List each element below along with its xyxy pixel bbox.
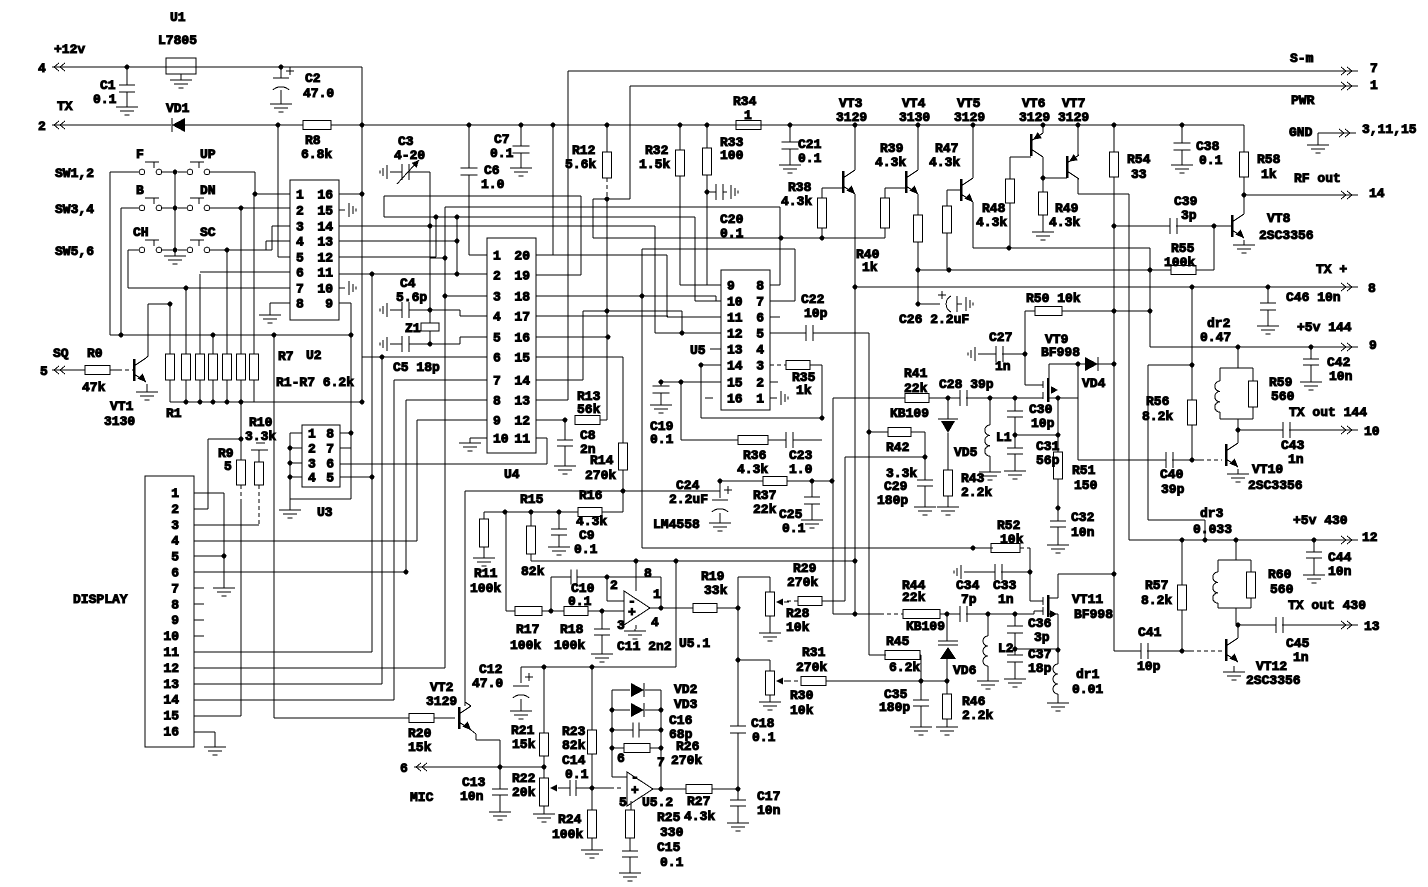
stub U5 pin2 bbox=[770, 381, 778, 383]
wire +5v 144 rail bbox=[1150, 346, 1338, 348]
svg-text:R42: R42 bbox=[886, 440, 910, 455]
resistor R6 6.2k bbox=[237, 354, 246, 380]
svg-text:R30: R30 bbox=[790, 688, 814, 703]
wire gate2 bus bbox=[1113, 177, 1115, 574]
ground U4 pin10 bbox=[470, 437, 487, 439]
svg-text:C6: C6 bbox=[484, 163, 500, 178]
resistor R56 8.2k bbox=[1191, 287, 1193, 365]
wire VT5 base R47 bbox=[947, 189, 961, 191]
wire R14 supply line bbox=[465, 490, 720, 492]
svg-text:C3: C3 bbox=[398, 134, 414, 149]
ground C17 bbox=[737, 820, 739, 823]
svg-text:R28: R28 bbox=[786, 606, 810, 621]
svg-text:4.3k: 4.3k bbox=[684, 809, 715, 824]
wire U5 pin8 riser bbox=[770, 284, 780, 286]
svg-text:4: 4 bbox=[756, 343, 764, 358]
svg-text:15k: 15k bbox=[512, 737, 536, 752]
svg-text:U5.2: U5.2 bbox=[642, 795, 673, 810]
wire main V line bbox=[331, 124, 1244, 126]
svg-text:0.1: 0.1 bbox=[798, 151, 822, 166]
svg-text:1: 1 bbox=[308, 427, 316, 442]
ground C7 bbox=[520, 164, 522, 168]
resistor R21 15k bbox=[540, 733, 549, 756]
svg-text:4-20: 4-20 bbox=[394, 148, 425, 163]
ground L2 bbox=[987, 666, 989, 678]
svg-text:14: 14 bbox=[514, 374, 530, 389]
ground C44 bbox=[1313, 572, 1315, 575]
wire U4 pin20 to U5 pin11 bus bbox=[553, 254, 667, 256]
transistor VT12 2SC3356 bbox=[1225, 639, 1228, 661]
svg-text:5: 5 bbox=[619, 795, 627, 810]
svg-text:9: 9 bbox=[171, 613, 179, 628]
ground R28 bbox=[769, 616, 771, 631]
svg-text:C32: C32 bbox=[1071, 510, 1095, 525]
wire VT12 collector bbox=[1237, 625, 1239, 638]
svg-text:100k: 100k bbox=[552, 827, 583, 842]
capacitor C31 56p bbox=[1007, 447, 1023, 449]
svg-text:SQ: SQ bbox=[53, 346, 69, 361]
svg-text:VT6: VT6 bbox=[1022, 96, 1046, 111]
wire R35 loop bbox=[810, 364, 822, 366]
wire R52 line bbox=[971, 546, 976, 551]
svg-text:C26 2.2uF: C26 2.2uF bbox=[899, 312, 969, 327]
svg-text:R14: R14 bbox=[590, 453, 614, 468]
svg-text:C8: C8 bbox=[580, 428, 596, 443]
capacitor C26 2.2uF electrolytic bbox=[918, 303, 940, 305]
stub DISPLAY pin10 bbox=[194, 635, 204, 637]
wire VT8 collector bbox=[1243, 195, 1245, 214]
capacitor C25 0.1 bbox=[811, 481, 813, 497]
wire R40 node bias line bbox=[918, 269, 1171, 271]
resistor R1 6.2k bbox=[166, 354, 175, 380]
svg-text:12: 12 bbox=[1362, 530, 1378, 545]
wire U4 pin16 bbox=[536, 336, 608, 338]
resistor R40 1k bbox=[914, 215, 923, 242]
wire VT4 base R39 bbox=[885, 187, 906, 189]
ground R11 bbox=[483, 555, 485, 558]
wire DISPLAY pin2 bbox=[194, 508, 208, 510]
svg-text:R41: R41 bbox=[904, 366, 928, 381]
svg-text:8: 8 bbox=[644, 566, 652, 581]
wire U2 pin11 drop to display bbox=[371, 274, 373, 652]
wire VD5 to R43 bbox=[947, 433, 949, 470]
wire SW row1 to U2 pin1 bbox=[254, 172, 256, 194]
svg-text:C36: C36 bbox=[1028, 616, 1052, 631]
svg-text:C1: C1 bbox=[100, 78, 116, 93]
svg-text:1k: 1k bbox=[862, 260, 878, 275]
wire U5 pin5 C22 bbox=[770, 332, 806, 334]
ground C24 bbox=[719, 519, 721, 523]
wire R11 line bbox=[484, 511, 578, 513]
svg-text:C20: C20 bbox=[720, 212, 744, 227]
svg-text:R1-R7 6.2k: R1-R7 6.2k bbox=[276, 375, 354, 390]
wire source to C36 node bbox=[1015, 648, 1058, 650]
svg-text:RF out: RF out bbox=[1294, 171, 1341, 186]
svg-text:R27: R27 bbox=[687, 794, 710, 809]
wire U3 pin6 to U4 pin11 bbox=[340, 463, 547, 465]
svg-text:U5.1: U5.1 bbox=[679, 636, 710, 651]
svg-text:1.0: 1.0 bbox=[789, 462, 813, 477]
wire DISPLAY pin3 bbox=[194, 524, 259, 526]
svg-text:22k: 22k bbox=[753, 502, 777, 517]
svg-text:SW3,4: SW3,4 bbox=[55, 202, 94, 217]
resistor R47 4.3k bbox=[943, 206, 952, 233]
resistor R17 100k bbox=[515, 607, 542, 616]
IC U4 bbox=[487, 238, 536, 453]
resistor R24 100k bbox=[588, 810, 597, 838]
resistor R12 5.6k bbox=[605, 123, 610, 128]
capacitor C22 10p bbox=[805, 325, 807, 341]
wire +5v 430 rail bbox=[1129, 539, 1338, 541]
wire VT3 base R38 bbox=[822, 187, 843, 189]
wire U5 pin15 bbox=[661, 381, 721, 383]
transistor VT5 3129 bbox=[971, 123, 976, 128]
wire U3 pin8 loop bbox=[340, 432, 351, 434]
wire U4 pin7 bbox=[394, 379, 487, 381]
ground C11 bbox=[601, 651, 603, 654]
tank dr2 coil bbox=[1237, 347, 1239, 368]
resistor R23 82k bbox=[591, 667, 593, 730]
wire audio supply rail bbox=[642, 547, 973, 549]
svg-text:C29: C29 bbox=[884, 479, 908, 494]
ground C37 bbox=[1014, 676, 1016, 679]
IC U5 bbox=[721, 270, 770, 410]
svg-text:4.3k: 4.3k bbox=[737, 462, 768, 477]
resistor R14 270k bbox=[619, 443, 628, 470]
wire U4 pin1 bbox=[469, 254, 487, 256]
svg-text:C25: C25 bbox=[779, 507, 803, 522]
wire VT5 emitter line bbox=[972, 202, 974, 248]
capacitor C34 7p bbox=[959, 606, 961, 622]
svg-text:4: 4 bbox=[308, 471, 316, 486]
wire VT7 collector to 430 supply bbox=[1077, 179, 1079, 194]
feedback rail left bbox=[611, 690, 613, 777]
svg-text:0.1: 0.1 bbox=[752, 730, 776, 745]
ground C21 bbox=[789, 161, 791, 165]
svg-text:10: 10 bbox=[727, 295, 743, 310]
svg-text:C45: C45 bbox=[1286, 636, 1310, 651]
svg-text:6: 6 bbox=[400, 761, 408, 776]
capacitor C8 2n bbox=[564, 420, 566, 440]
svg-text:14: 14 bbox=[317, 220, 333, 235]
switch center column bbox=[174, 172, 176, 250]
capacitor C20 0.1 bbox=[707, 191, 716, 193]
wire U2 pin12 to U5 pin8 bus bbox=[339, 256, 436, 258]
capacitor C14 0.1 bbox=[563, 787, 570, 789]
wire R30 top bbox=[738, 659, 770, 661]
wire VT5 emitter drop 144 supply bbox=[1149, 248, 1151, 347]
wire main drop to resistor rail bbox=[361, 125, 363, 402]
svg-text:F: F bbox=[136, 147, 144, 162]
capacitor C5 18p bbox=[386, 337, 388, 351]
wire U5.2 output bbox=[653, 788, 686, 790]
svg-text:TX out 144: TX out 144 bbox=[1289, 405, 1367, 420]
svg-text:R52: R52 bbox=[997, 518, 1021, 533]
ground L1 bbox=[989, 456, 991, 468]
capacitor C10 0.1 bbox=[550, 577, 552, 611]
capacitor C33 1n bbox=[960, 565, 962, 579]
ground C9 bbox=[558, 544, 560, 547]
svg-text:2SC3356: 2SC3356 bbox=[1259, 228, 1314, 243]
wire TX out 144 line bbox=[1238, 429, 1283, 431]
resistor R45 6.2k bbox=[868, 432, 870, 655]
svg-text:S-m: S-m bbox=[1290, 51, 1314, 66]
capacitor C32 10n bbox=[1057, 508, 1059, 521]
svg-text:BF998: BF998 bbox=[1074, 607, 1113, 622]
svg-text:VT7: VT7 bbox=[1062, 96, 1085, 111]
svg-text:4: 4 bbox=[171, 534, 179, 549]
svg-text:C27: C27 bbox=[989, 330, 1012, 345]
resistor R0 47k bbox=[85, 366, 110, 375]
resistor R52 10k bbox=[991, 544, 1020, 553]
wire U4 pin9 bbox=[417, 419, 487, 421]
wire U2 pin1 bbox=[255, 193, 290, 195]
svg-text:5: 5 bbox=[756, 327, 764, 342]
capacitor C36 3p bbox=[1014, 614, 1016, 626]
capacitor C30 10p bbox=[1014, 398, 1016, 411]
svg-text:11: 11 bbox=[317, 266, 333, 281]
svg-text:47.0: 47.0 bbox=[472, 676, 503, 691]
svg-text:TX: TX bbox=[57, 99, 73, 114]
resistor R60 560 bbox=[1250, 560, 1252, 572]
svg-text:16: 16 bbox=[514, 331, 530, 346]
svg-text:U3: U3 bbox=[317, 505, 333, 520]
svg-text:R49: R49 bbox=[1055, 201, 1079, 216]
wire VT1 collector bbox=[146, 356, 148, 358]
svg-text:VT3: VT3 bbox=[839, 96, 863, 111]
wire feedback to output bbox=[607, 576, 661, 578]
wire R17 R18 junction bbox=[542, 610, 564, 612]
svg-text:8: 8 bbox=[171, 597, 179, 612]
resistor R18 100k bbox=[564, 607, 588, 616]
capacitor C11 2n2 bbox=[601, 611, 603, 629]
tank 430 bottom bbox=[1218, 607, 1251, 609]
wire VD6 to node bbox=[946, 659, 948, 681]
wire U4 pin18 to U5 bbox=[536, 295, 716, 297]
svg-text:L7805: L7805 bbox=[158, 33, 197, 48]
resistor R13 56k bbox=[575, 416, 600, 425]
svg-text:VT11: VT11 bbox=[1072, 592, 1103, 607]
wire VT2 collector bbox=[465, 702, 471, 706]
svg-text:15: 15 bbox=[163, 709, 179, 724]
svg-text:2.2k: 2.2k bbox=[962, 708, 993, 723]
svg-text:R16: R16 bbox=[579, 488, 603, 503]
wire R40 node drop bbox=[917, 270, 919, 304]
resistor R43 2.2k bbox=[944, 470, 953, 496]
svg-text:5: 5 bbox=[493, 331, 501, 346]
wire R18 to plus bbox=[588, 610, 624, 612]
svg-text:1.5k: 1.5k bbox=[639, 157, 670, 172]
wire opamp supply rail bbox=[531, 560, 855, 562]
IC U2 bbox=[290, 180, 339, 320]
svg-text:MIC: MIC bbox=[410, 790, 434, 805]
resistor R29 270k bbox=[787, 600, 798, 602]
wire U4 pin6 bbox=[362, 356, 487, 358]
cap glyph U2 pin10 bbox=[339, 287, 345, 289]
wire R12 node riser bbox=[606, 199, 608, 420]
capacitor C35 180p bbox=[920, 681, 922, 700]
ground U3 bbox=[289, 499, 291, 510]
wires U3 left pins bbox=[290, 432, 302, 434]
ground C31 bbox=[1014, 468, 1016, 471]
svg-text:10k: 10k bbox=[786, 620, 810, 635]
svg-text:3130: 3130 bbox=[104, 414, 135, 429]
svg-text:C30: C30 bbox=[1029, 402, 1053, 417]
feedback rail right bbox=[660, 690, 662, 789]
svg-text:R31: R31 bbox=[802, 645, 826, 660]
wire DISPLAY pin13 bbox=[194, 683, 382, 685]
svg-text:1: 1 bbox=[1370, 78, 1378, 93]
wire U4 pin12 bbox=[536, 419, 565, 421]
svg-text:VD4: VD4 bbox=[1082, 376, 1106, 391]
svg-text:560: 560 bbox=[1270, 582, 1294, 597]
svg-text:C2: C2 bbox=[305, 71, 321, 86]
svg-text:VT12: VT12 bbox=[1256, 659, 1287, 674]
wire drain to C41 bbox=[1113, 574, 1115, 651]
wire DISPLAY pin5 ground bbox=[194, 555, 224, 557]
ground C25 bbox=[811, 517, 813, 520]
svg-text:4: 4 bbox=[651, 615, 659, 630]
svg-text:C9: C9 bbox=[579, 528, 595, 543]
capacitor C42 10n bbox=[1310, 347, 1312, 359]
svg-text:0.1: 0.1 bbox=[720, 226, 744, 241]
svg-text:56p: 56p bbox=[1036, 453, 1060, 468]
wire bus S-m bbox=[568, 70, 1338, 72]
svg-text:47.0: 47.0 bbox=[303, 86, 334, 101]
svg-text:4.3k: 4.3k bbox=[576, 514, 607, 529]
svg-text:R45: R45 bbox=[886, 634, 910, 649]
capacitor C44 10n bbox=[1313, 540, 1315, 552]
wire pin15 drop to R36 bbox=[680, 382, 682, 440]
svg-text:C38: C38 bbox=[1196, 139, 1220, 154]
svg-text:2: 2 bbox=[171, 502, 179, 517]
wire varactor bias rail bbox=[845, 456, 925, 458]
svg-text:R23: R23 bbox=[562, 724, 586, 739]
wire U4 pin19 riser bbox=[536, 274, 581, 276]
svg-text:8: 8 bbox=[296, 297, 304, 312]
capacitor C9 0.1 bbox=[558, 512, 560, 529]
svg-text:7: 7 bbox=[1370, 61, 1378, 76]
svg-text:8.2k: 8.2k bbox=[1142, 409, 1173, 424]
wire R37 node drop to R44 bbox=[832, 398, 834, 614]
svg-text:R32: R32 bbox=[645, 143, 669, 158]
resistor R32 1.5k bbox=[678, 123, 683, 128]
capacitor C15 0.1 bbox=[629, 838, 631, 851]
svg-text:4: 4 bbox=[493, 310, 501, 325]
resistor R44 22k bbox=[855, 613, 880, 615]
inductor L2 bbox=[987, 614, 989, 636]
transistor VT2 3129 bbox=[458, 707, 461, 729]
svg-text:100k: 100k bbox=[470, 581, 501, 596]
wire VT2 base line bbox=[274, 717, 409, 719]
wire U2 pin5 from TX node bbox=[278, 256, 290, 258]
svg-text:U5: U5 bbox=[690, 343, 706, 358]
transistor VT6 3129 pnp bbox=[1041, 123, 1046, 128]
wire U4 pin13 bus1 riser bbox=[536, 399, 568, 401]
transistor VT7 3129 pnp bbox=[1076, 123, 1081, 128]
svg-text:6: 6 bbox=[617, 751, 625, 766]
resistor R59 560 bbox=[1252, 368, 1254, 381]
svg-text:C22: C22 bbox=[801, 292, 825, 307]
svg-text:+5v 430: +5v 430 bbox=[1293, 513, 1348, 528]
svg-text:1n: 1n bbox=[1288, 452, 1304, 467]
svg-text:20k: 20k bbox=[512, 785, 536, 800]
resistor R33 100 bbox=[705, 123, 710, 128]
transistor VT1 3130 bbox=[133, 359, 136, 381]
resistor R2 6.2k bbox=[182, 354, 191, 380]
svg-text:C28 39p: C28 39p bbox=[939, 377, 994, 392]
svg-text:1k: 1k bbox=[1261, 167, 1277, 182]
ground U1 bbox=[180, 74, 182, 80]
wire opamp output bbox=[650, 607, 693, 609]
wire C4 to U4 pin4 bbox=[430, 309, 460, 311]
svg-text:U1: U1 bbox=[170, 10, 186, 25]
svg-text:8.2k: 8.2k bbox=[1141, 593, 1172, 608]
svg-text:4.3k: 4.3k bbox=[781, 194, 812, 209]
svg-text:0.1: 0.1 bbox=[490, 146, 514, 161]
capacitor C46 10n bbox=[1267, 287, 1269, 303]
ground C32 bbox=[1057, 542, 1059, 545]
svg-text:SC: SC bbox=[200, 225, 216, 240]
svg-text:3: 3 bbox=[617, 618, 625, 633]
svg-text:1: 1 bbox=[653, 587, 661, 602]
capacitor C2 47.0 electrolytic bbox=[279, 65, 284, 70]
svg-text:3129: 3129 bbox=[426, 694, 457, 709]
capacitor C12 47.0 electrolytic bbox=[520, 667, 522, 683]
svg-text:1n: 1n bbox=[998, 592, 1014, 607]
ground C2 bbox=[280, 100, 282, 104]
cap glyph U2 pin15 bbox=[339, 209, 345, 211]
ground C42 bbox=[1310, 379, 1312, 382]
resistor R49 4.3k bbox=[1042, 178, 1044, 192]
svg-text:VD2: VD2 bbox=[674, 682, 698, 697]
capacitor C29 180p bbox=[924, 457, 926, 480]
varactor VD6 KB109 bbox=[946, 614, 948, 641]
capacitor C28 39p bbox=[959, 390, 961, 406]
transistor VT8 2SC3356 bbox=[1231, 215, 1234, 237]
wire DISPLAY pin6 bbox=[194, 571, 406, 573]
wire U2 pin8 ground bbox=[270, 302, 290, 304]
svg-text:9: 9 bbox=[727, 279, 735, 294]
svg-text:100k: 100k bbox=[554, 638, 585, 653]
wire VT11 gate1 bbox=[1015, 613, 1034, 615]
svg-text:6.2k: 6.2k bbox=[889, 660, 920, 675]
wire C40 branch bbox=[1077, 364, 1079, 460]
svg-text:C18: C18 bbox=[751, 716, 775, 731]
svg-text:R56: R56 bbox=[1146, 394, 1170, 409]
svg-text:82k: 82k bbox=[562, 738, 586, 753]
svg-text:U2: U2 bbox=[306, 348, 322, 363]
svg-text:0.1: 0.1 bbox=[568, 594, 592, 609]
wire VT3 emitter to R44 bbox=[854, 287, 856, 614]
wire DISPLAY pin1 bbox=[194, 492, 224, 494]
svg-text:C21: C21 bbox=[798, 137, 822, 152]
svg-text:14: 14 bbox=[163, 693, 179, 708]
ground C13 bbox=[499, 809, 501, 812]
stub DISPLAY pin7 bbox=[194, 587, 204, 589]
svg-text:7: 7 bbox=[171, 581, 179, 596]
ground opamp pin4 bbox=[635, 625, 637, 629]
svg-text:R26: R26 bbox=[676, 739, 700, 754]
svg-text:B: B bbox=[136, 183, 144, 198]
wire U3 pin5 bbox=[340, 476, 372, 478]
svg-text:10p: 10p bbox=[1031, 416, 1055, 431]
svg-text:3129: 3129 bbox=[1058, 110, 1089, 125]
diode VD2 bbox=[612, 689, 630, 691]
wire VD1 to R8 bbox=[185, 124, 303, 126]
ground R22 bbox=[543, 806, 545, 811]
svg-text:6: 6 bbox=[756, 311, 764, 326]
